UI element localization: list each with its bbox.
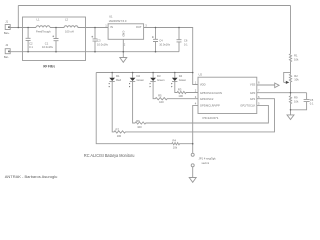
svg-text:ANTRAK - Barbaros Asuroglu: ANTRAK - Barbaros Asuroglu — [5, 174, 58, 179]
svg-text:0.1: 0.1 — [29, 45, 33, 49]
svg-text:RF Filtre: RF Filtre — [43, 64, 55, 68]
svg-text:10.0x16v: 10.0x16v — [159, 42, 171, 46]
svg-text:GP5/OSC1/CLKIN: GP5/OSC1/CLKIN — [200, 91, 222, 95]
svg-text:R4: R4 — [173, 139, 177, 143]
svg-text:C6: C6 — [184, 39, 188, 43]
svg-text:JP1 4 seg/5gk: JP1 4 seg/5gk — [199, 156, 217, 160]
svg-text:GP4/OSC2: GP4/OSC2 — [200, 97, 214, 101]
svg-text:U2: U2 — [199, 72, 203, 76]
svg-text:GP0: GP0 — [250, 91, 256, 95]
svg-text:J1: J1 — [5, 19, 8, 23]
svg-text:10k: 10k — [294, 57, 299, 61]
svg-text:Green: Green — [137, 78, 145, 82]
svg-text:GP3/MCLR/VPP: GP3/MCLR/VPP — [200, 104, 220, 108]
svg-text:10k: 10k — [294, 99, 299, 103]
svg-text:Bat-: Bat- — [4, 55, 9, 59]
svg-text:GND: GND — [121, 31, 125, 37]
svg-text:VDD: VDD — [200, 83, 206, 87]
svg-text:GP2/TOCLK: GP2/TOCLK — [240, 104, 255, 108]
svg-text:C4: C4 — [159, 39, 163, 43]
svg-text:100: 100 — [137, 125, 142, 129]
svg-text:U1: U1 — [109, 15, 113, 19]
svg-text:C5: C5 — [310, 98, 314, 102]
svg-text:R6: R6 — [136, 119, 140, 123]
svg-text:Bat+: Bat+ — [4, 31, 10, 35]
svg-text:OUT: OUT — [136, 25, 142, 29]
svg-text:R3: R3 — [178, 88, 182, 92]
svg-text:LM2937ET-5.0: LM2937ET-5.0 — [109, 19, 127, 23]
svg-text:Red: Red — [116, 78, 121, 82]
svg-text:R7: R7 — [116, 128, 120, 132]
svg-text:VSS: VSS — [250, 83, 256, 87]
svg-text:R5: R5 — [158, 94, 162, 98]
svg-text:C3: C3 — [97, 39, 101, 43]
svg-text:10k: 10k — [173, 145, 178, 149]
svg-text:0.1: 0.1 — [184, 43, 188, 47]
svg-text:RC ALICISI Batarya Monitoru: RC ALICISI Batarya Monitoru — [84, 153, 135, 158]
svg-text:secimi: secimi — [202, 161, 210, 165]
svg-text:0.1: 0.1 — [310, 101, 314, 105]
svg-text:L2: L2 — [65, 18, 68, 22]
svg-text:D1: D1 — [116, 74, 120, 78]
svg-text:Green: Green — [179, 78, 187, 82]
svg-text:100: 100 — [159, 100, 164, 104]
svg-text:10.0x16v: 10.0x16v — [42, 45, 54, 49]
svg-text:GP1: GP1 — [250, 97, 256, 101]
svg-text:FeedTrough: FeedTrough — [36, 30, 51, 34]
svg-text:J2: J2 — [5, 43, 8, 47]
svg-text:PIC12C671: PIC12C671 — [203, 116, 219, 120]
svg-text:D4: D4 — [179, 74, 183, 78]
svg-text:100 uH: 100 uH — [65, 30, 74, 34]
svg-text:R1: R1 — [294, 54, 298, 58]
svg-text:10.0x16v: 10.0x16v — [97, 42, 109, 46]
svg-text:R2: R2 — [294, 74, 298, 78]
svg-text:D3: D3 — [157, 74, 161, 78]
svg-text:R9: R9 — [294, 96, 298, 100]
svg-text:100: 100 — [178, 94, 183, 98]
svg-text:L1: L1 — [37, 18, 40, 22]
svg-text:Green: Green — [157, 78, 165, 82]
svg-text:100: 100 — [117, 134, 122, 138]
svg-text:D2: D2 — [137, 74, 141, 78]
svg-text:10k: 10k — [294, 78, 299, 82]
svg-text:IN: IN — [110, 25, 113, 29]
